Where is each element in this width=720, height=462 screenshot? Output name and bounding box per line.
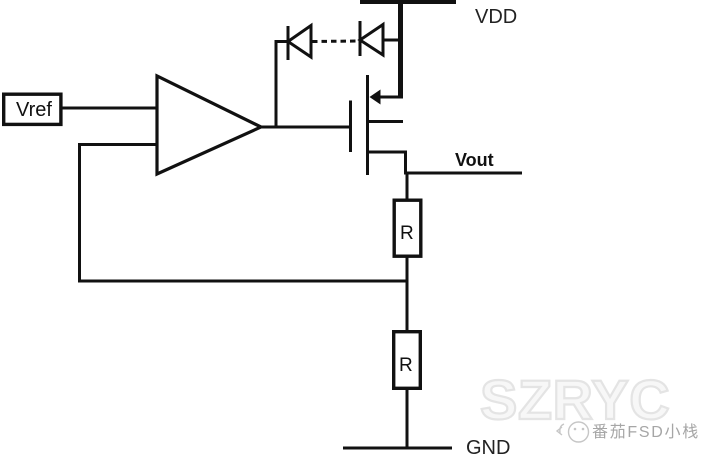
svg-text:R: R — [400, 223, 414, 244]
svg-text:Vout: Vout — [455, 150, 494, 170]
drain vertical to output node — [404, 151, 407, 174]
diode D2 — [360, 21, 383, 56]
wire feedback vertical left — [78, 143, 81, 282]
wire output node down to R1 — [406, 172, 409, 200]
wire VDD vertical drop — [398, 0, 403, 98]
diode D1 — [288, 26, 311, 61]
channel bar — [366, 75, 369, 175]
wire R1 to feedback node — [406, 256, 409, 282]
wire gate node up to diode D1 — [275, 40, 278, 127]
svg-text:番茄FSD小栈: 番茄FSD小栈 — [592, 423, 700, 441]
gate bar — [349, 101, 352, 153]
wire R2 to ground — [406, 388, 409, 448]
ground — [343, 447, 452, 450]
dashed wire (series diode continuation) — [312, 40, 359, 44]
Vref source box — [4, 94, 61, 124]
wire feedback op-amp inverting input — [78, 143, 158, 146]
svg-text:SZRYC: SZRYC — [480, 368, 670, 431]
resistor R1 — [394, 200, 421, 256]
power rail VDD — [360, 0, 456, 4]
wire node to diode D1 cathode — [275, 40, 288, 43]
watermark logo cat icon — [557, 422, 589, 442]
svg-text:R: R — [399, 355, 413, 376]
transistor Q1 (PMOS pass element) — [349, 75, 407, 175]
wire feedback bottom horizontal — [78, 280, 408, 283]
wire op-amp output to gate — [261, 126, 350, 129]
svg-text:Vref: Vref — [16, 99, 52, 121]
resistor R2 — [394, 332, 421, 389]
source arm from VDD with arrow — [378, 96, 403, 99]
svg-text:GND: GND — [466, 437, 510, 459]
bulk arm — [369, 120, 403, 123]
node Vout wire — [404, 172, 522, 175]
wire Vref to op-amp non-inverting input — [62, 107, 158, 110]
wire diode D2 anode to VDD line — [383, 39, 400, 42]
op-amp U1 — [157, 76, 261, 174]
svg-text:VDD: VDD — [475, 6, 517, 28]
wire feedback node down to R2 — [406, 280, 409, 332]
drain arm — [369, 151, 407, 154]
